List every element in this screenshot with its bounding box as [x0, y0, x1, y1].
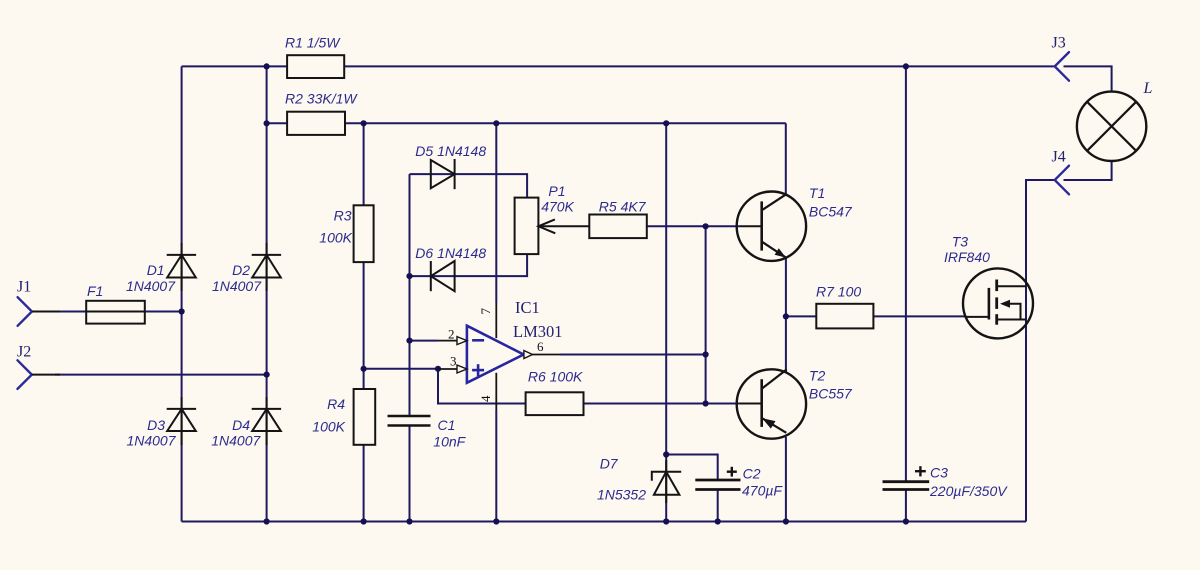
svg-text:F1: F1: [87, 283, 103, 299]
svg-text:T2: T2: [809, 368, 826, 384]
svg-text:D5 1N4148: D5 1N4148: [415, 143, 486, 159]
svg-text:D6 1N4148: D6 1N4148: [415, 245, 486, 261]
svg-text:P1: P1: [548, 183, 565, 199]
svg-text:10nF: 10nF: [433, 434, 466, 450]
svg-text:1N4007: 1N4007: [126, 432, 176, 448]
svg-text:R7 100: R7 100: [816, 284, 861, 300]
svg-text:R6 100K: R6 100K: [528, 369, 583, 385]
svg-text:BC547: BC547: [809, 204, 853, 220]
svg-text:R3: R3: [334, 208, 352, 224]
svg-text:IRF840: IRF840: [944, 249, 990, 265]
svg-text:BC557: BC557: [809, 386, 853, 402]
svg-text:3: 3: [450, 354, 457, 369]
svg-text:T1: T1: [809, 185, 825, 201]
svg-text:6: 6: [537, 339, 544, 354]
svg-text:J1: J1: [17, 279, 31, 296]
svg-text:T3: T3: [952, 234, 969, 250]
svg-text:4: 4: [478, 395, 493, 402]
svg-text:220µF/350V: 220µF/350V: [929, 483, 1008, 499]
svg-text:J3: J3: [1052, 35, 1066, 52]
svg-text:470K: 470K: [541, 199, 574, 215]
svg-text:C1: C1: [438, 417, 456, 433]
svg-text:R4: R4: [327, 396, 345, 412]
svg-text:J2: J2: [17, 344, 31, 361]
svg-text:D1: D1: [147, 262, 165, 278]
svg-text:L: L: [1143, 80, 1153, 97]
svg-text:J4: J4: [1052, 149, 1066, 166]
svg-text:D2: D2: [232, 262, 250, 278]
svg-text:470µF: 470µF: [742, 483, 783, 499]
svg-text:R2 33K/1W: R2 33K/1W: [285, 91, 358, 107]
svg-text:100K: 100K: [319, 230, 352, 246]
svg-text:R5 4K7: R5 4K7: [599, 199, 647, 215]
svg-text:D4: D4: [232, 417, 250, 433]
svg-text:2: 2: [448, 327, 455, 342]
svg-text:C3: C3: [930, 465, 948, 481]
svg-text:100K: 100K: [312, 419, 345, 435]
svg-text:1N4007: 1N4007: [126, 278, 176, 294]
svg-text:1N4007: 1N4007: [212, 278, 262, 294]
svg-text:R1 1/5W: R1 1/5W: [285, 35, 341, 51]
svg-text:C2: C2: [743, 466, 761, 482]
svg-text:1N4007: 1N4007: [211, 432, 261, 448]
svg-text:1N5352: 1N5352: [597, 487, 646, 503]
svg-text:7: 7: [478, 308, 493, 315]
svg-text:D3: D3: [147, 417, 165, 433]
svg-text:D7: D7: [600, 456, 619, 472]
svg-text:IC1: IC1: [515, 298, 540, 317]
